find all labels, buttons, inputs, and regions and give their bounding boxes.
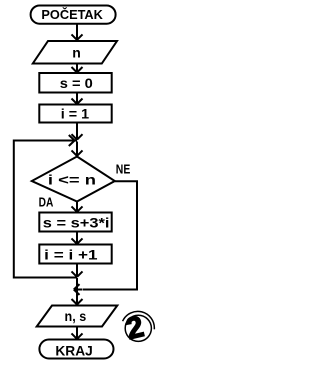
arrow A2 (72, 64, 83, 73)
process box s=0 (39, 73, 111, 93)
parallelogram input n (33, 41, 117, 64)
decision diamond i<=n (32, 157, 115, 202)
svg-text:NE: NE (116, 163, 131, 177)
process box i=1 (39, 105, 111, 123)
svg-text:n, s: n, s (65, 309, 87, 324)
terminator POCETAK (31, 6, 116, 24)
wire i=i+1 down to loop junction (72, 264, 83, 277)
logo orbit arc (123, 311, 155, 329)
svg-text:i <= n: i <= n (48, 172, 96, 188)
NE branch wire (right side) (83, 181, 138, 289)
logo circle (125, 315, 151, 341)
terminator KRAJ (39, 340, 113, 359)
arrow A6 decision to s=s+3*i (72, 202, 83, 212)
svg-text:i = i +1: i = i +1 (44, 246, 98, 262)
NE branch arrowhead (74, 284, 82, 295)
svg-text:s = 0: s = 0 (60, 75, 93, 91)
process box i=i+1 (39, 245, 111, 264)
arrow A11 (72, 327, 83, 339)
arrow A1 (72, 24, 83, 40)
svg-text:POČETAK: POČETAK (41, 7, 103, 22)
wire junction down to output (72, 278, 83, 305)
svg-text:i = 1: i = 1 (61, 106, 90, 122)
svg-text:KRAJ: KRAJ (55, 343, 92, 359)
svg-text:DA: DA (39, 196, 54, 210)
arrow A5 junction to decision (72, 142, 83, 156)
loop return arrowhead into junction (69, 135, 75, 146)
arrow A3 (72, 93, 83, 104)
loop return wire (left side) (14, 141, 77, 278)
arrow A7 (72, 232, 83, 244)
wire from i=1 to junction (72, 123, 83, 140)
process box s=s+3*i (39, 213, 111, 232)
svg-text:n: n (72, 44, 81, 60)
svg-text:s = s+3*i: s = s+3*i (43, 215, 110, 231)
parallelogram output n,s (37, 306, 118, 327)
